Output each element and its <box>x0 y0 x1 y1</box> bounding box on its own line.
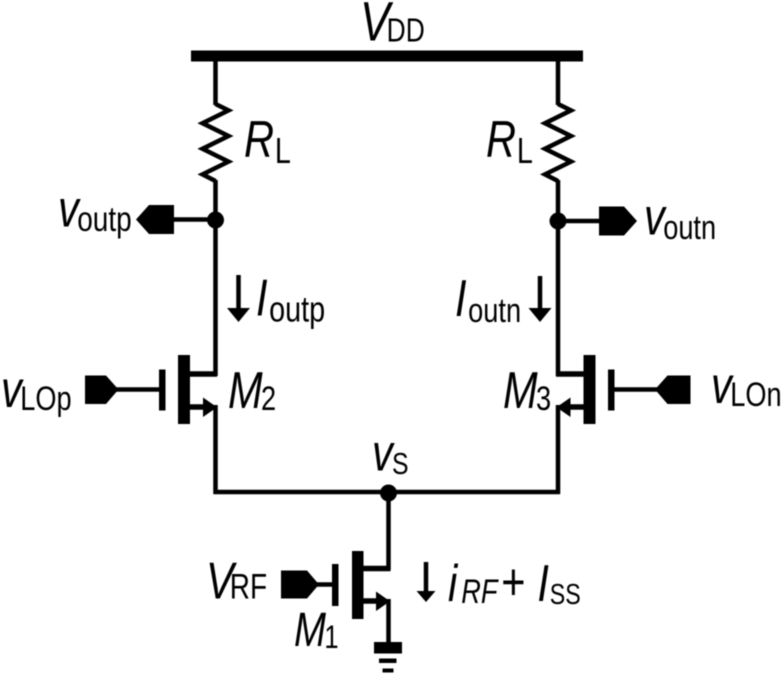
M2 drain stub <box>189 371 217 377</box>
terminal pentagon VRF <box>281 571 319 599</box>
wire: right resistor to M3 drain <box>556 180 561 376</box>
transistor M1 channel bar <box>352 551 364 619</box>
M1 drain stub <box>362 566 391 572</box>
transistor M2 gate bar <box>159 370 166 411</box>
M3 drain stub <box>556 371 584 377</box>
wire: vS rail <box>214 490 561 495</box>
node vS junction dot <box>380 485 397 502</box>
M2 source stub with arrow <box>189 404 205 410</box>
wire: vS node to M1 drain <box>386 492 391 570</box>
wire: VDD to left resistor <box>213 59 218 105</box>
terminal pentagon vLOn <box>655 376 691 405</box>
current arrow iRF <box>424 562 429 593</box>
wire: left resistor to M2 drain <box>213 180 218 376</box>
terminal pentagon voutn <box>599 207 637 236</box>
current arrow Ioutn <box>538 276 543 310</box>
current arrow Ioutp <box>236 275 241 310</box>
node voutn junction dot <box>550 213 567 230</box>
transistor M2 channel bar <box>178 355 190 424</box>
node voutp junction dot <box>207 212 224 229</box>
wire: M3 source down to vS rail <box>556 405 561 494</box>
transistor M3 channel bar <box>584 355 596 424</box>
transistor M3 gate bar <box>608 370 615 411</box>
wire: vLOp terminal to M2 gate <box>116 387 160 392</box>
resistor RL (right) <box>545 104 571 181</box>
transistor M1 gate bar <box>332 564 339 606</box>
wire: VRF terminal to M1 gate <box>317 582 333 587</box>
ground <box>374 642 402 654</box>
terminal pentagon vLOp <box>85 376 119 405</box>
M1 source stub with arrow <box>362 598 378 604</box>
wire: node to voutn terminal <box>566 219 601 224</box>
M3 source stub with arrow <box>568 404 584 410</box>
wire: M2 source down to vS rail <box>213 405 218 494</box>
resistor RL (left) <box>203 104 229 181</box>
wire: M1 source to ground <box>386 599 391 644</box>
VDD rail <box>191 51 583 62</box>
terminal pentagon voutp <box>136 205 174 234</box>
wire: VDD to right resistor <box>556 59 561 105</box>
wire: node to voutp terminal <box>174 217 209 222</box>
wire: vLOn terminal to M3 gate <box>613 387 657 392</box>
